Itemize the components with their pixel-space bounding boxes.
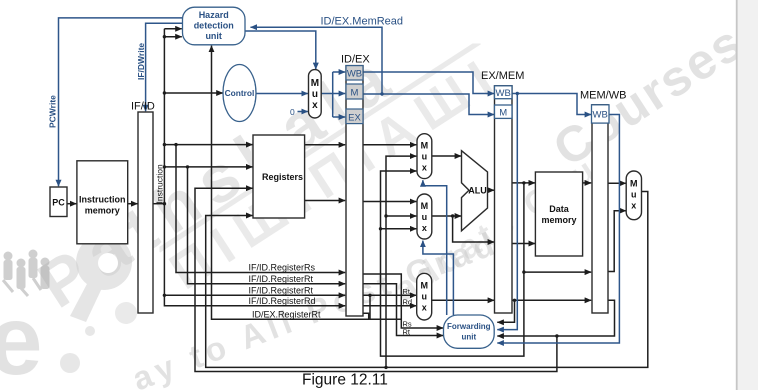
MEM/WB register [592, 105, 608, 313]
svg-text:memory: memory [541, 215, 576, 225]
wire EX/MEM ALU-result to MEM/WB [524, 271, 591, 273]
svg-text:IF/ID: IF/ID [131, 101, 155, 113]
wire EX/MEM WB to MEM/WB WB [512, 94, 591, 115]
svg-text:M: M [421, 201, 429, 211]
svg-text:Instruction: Instruction [155, 164, 165, 203]
mux ALU operand A [417, 134, 432, 179]
svg-text:Figure 12.11: Figure 12.11 [302, 372, 388, 389]
svg-text:u: u [422, 152, 428, 162]
wire Rs line to forwarding unit [363, 274, 443, 328]
svg-text:IF/ID.RegisterRt: IF/ID.RegisterRt [249, 286, 314, 296]
svg-text:WB: WB [496, 88, 511, 99]
wire ID/EX.RegisterRt to hazard unit [212, 46, 369, 320]
ID/EX register [346, 66, 363, 316]
svg-text:WB: WB [593, 110, 608, 121]
svg-text:M: M [351, 88, 359, 99]
svg-text:PC: PC [52, 198, 65, 208]
wire EX/MEM to data memory write data [512, 243, 535, 245]
svg-text:x: x [422, 163, 427, 173]
svg-text:u: u [421, 292, 427, 302]
wire destination mux output to EX/MEM [432, 299, 495, 301]
wire control to mux [256, 93, 308, 95]
wire hazard unit to control mux select [245, 31, 316, 69]
svg-text:Registers: Registers [262, 172, 303, 182]
svg-text:EX/MEM: EX/MEM [481, 70, 524, 82]
svg-text:M: M [420, 281, 428, 291]
wire instruction stub IF/ID to trunk [153, 203, 164, 205]
mux ALU operand B [417, 194, 432, 239]
wire WB-mux forward to mux A input 2 and mux B input 2 [386, 156, 416, 367]
svg-text:ID/EX: ID/EX [341, 54, 370, 66]
wire MEM/WB ALU result to WB mux input 2 [607, 211, 626, 272]
wire control mux output bracket to ID/EX WB M EX [321, 93, 333, 95]
mux write back [626, 171, 641, 220]
wire data memory read data to MEM/WB [583, 182, 592, 184]
svg-text:u: u [422, 212, 428, 222]
wire IF/ID.RegisterRs line [176, 145, 345, 273]
svg-text:e: e [0, 285, 43, 390]
junction dots navy [380, 92, 519, 96]
svg-text:u: u [312, 89, 318, 100]
wire EX/MEM WB branch to forwarding unit [497, 94, 517, 330]
wire ID/EX.MemRead to hazard unit [251, 27, 383, 94]
svg-text:memory: memory [85, 206, 120, 216]
wire EX/MEM.RegisterRd branch to forwarding unit [497, 300, 514, 322]
wire Rt to destination mux input 1 [363, 294, 416, 296]
EX/MEM WB box [495, 86, 513, 99]
svg-text:EX: EX [348, 113, 361, 124]
svg-text:M: M [630, 179, 638, 189]
svg-text:MEM/WB: MEM/WB [580, 90, 626, 102]
mux control (after control unit) [309, 70, 322, 118]
data memory [535, 172, 582, 256]
wire mux B output branch to EX/MEM write data [453, 216, 495, 242]
wire ALU output to EX/MEM [488, 189, 495, 191]
wire EX/MEM to data memory address [512, 182, 535, 184]
ID/EX EX box [346, 109, 363, 124]
svg-text:IF/DWrite: IF/DWrite [136, 43, 146, 80]
svg-text:Data: Data [549, 204, 570, 214]
wire registers read data 1 to ID/EX [305, 144, 346, 146]
svg-text:x: x [631, 201, 636, 211]
svg-text:Rd: Rd [403, 297, 413, 306]
svg-text:u: u [631, 190, 637, 200]
svg-text:Rt: Rt [403, 287, 411, 296]
registers [253, 135, 305, 218]
svg-text:M: M [311, 78, 319, 89]
wire instruction memory to IF/ID [128, 203, 138, 205]
junction dots black [163, 35, 559, 369]
wire ID/EX M to EX/MEM M [363, 94, 494, 115]
svg-text:WB: WB [347, 69, 362, 80]
svg-text:x: x [422, 303, 427, 313]
svg-text:PCWrite: PCWrite [48, 95, 58, 128]
svg-text:detection: detection [194, 21, 234, 31]
ID/EX M box [346, 84, 363, 99]
wire ID/EX to ALU mux A input 1 [363, 144, 416, 146]
wire MEM/WB WB to forwarding unit [497, 115, 619, 344]
wire control feed [164, 92, 222, 94]
wire mux B output to ALU [432, 215, 461, 217]
svg-text:unit: unit [461, 333, 476, 342]
wire write register (MEM/WB.RegisterRd wrap-around) [195, 188, 557, 371]
page edge strip [736, 0, 758, 390]
svg-text:Courses: Courses [543, 14, 753, 178]
ALU [462, 151, 488, 231]
svg-text:x: x [312, 100, 318, 111]
EX/MEM M box [495, 105, 513, 118]
svg-text:x: x [422, 223, 427, 233]
svg-text:Rt: Rt [403, 327, 411, 336]
svg-text:Forwarding: Forwarding [447, 322, 491, 331]
svg-text:unit: unit [205, 31, 222, 41]
forwarding unit [444, 315, 495, 348]
wire EX/MEM ALU-result forward (down, left, up to mux A input 3) [381, 171, 524, 356]
wire Rd to destination mux input 2 [363, 305, 416, 307]
wire write data (WB mux wrap-around) [206, 192, 648, 368]
wire Rs jog to forwarding vertical [370, 295, 401, 319]
control unit [223, 65, 256, 122]
svg-text:Instruction: Instruction [79, 195, 126, 205]
PC [50, 187, 67, 217]
wire ID/EX to ALU mux B input 1 [363, 201, 416, 203]
wire read register 1 [164, 144, 252, 146]
wire IF/ID.RegisterRt line 2 [164, 294, 345, 296]
EX/MEM register [495, 86, 513, 313]
svg-text:IF/ID.RegisterRs: IF/ID.RegisterRs [249, 263, 316, 273]
wire PC to instruction memory [67, 203, 76, 205]
ID/EX WB box [346, 66, 363, 80]
MEM/WB WB box [592, 105, 610, 123]
wire forwarding unit ForwardA to mux A select [423, 180, 447, 315]
svg-text:ID/EX.RegisterRt: ID/EX.RegisterRt [252, 310, 321, 320]
wire MEM/WB read data to WB mux input 1 [607, 182, 626, 184]
svg-text:ALU: ALU [468, 186, 487, 196]
mux destination register [417, 273, 432, 320]
wire Rt line to forwarding unit [363, 284, 443, 336]
instruction memory [77, 161, 128, 244]
wire MEM/WB.RegisterRd to forwarding unit [497, 300, 614, 336]
wire mux A output to ALU [432, 155, 461, 157]
svg-text:M: M [499, 108, 507, 119]
svg-text:Control: Control [225, 88, 255, 98]
wire registers read data 2 to ID/EX [305, 200, 346, 202]
IF/ID register [138, 112, 153, 313]
svg-text:Hazard: Hazard [199, 10, 229, 20]
wire ID/EX WB to EX/MEM WB [363, 72, 494, 94]
wire hazard input 2 [164, 36, 181, 38]
wire zero constant to mux [298, 111, 308, 113]
wire EX/MEM.RegisterRd to MEM/WB [512, 299, 591, 301]
wire branch to mux B input 3 [381, 228, 417, 230]
svg-text:M: M [421, 141, 429, 151]
wire IF/IDWrite (hazard unit to IF/ID) [146, 23, 183, 111]
svg-text:IF/ID.RegisterRd: IF/ID.RegisterRd [249, 296, 316, 306]
wire read register 2 [164, 166, 252, 168]
svg-text:0: 0 [290, 107, 295, 117]
wire instruction trunk (vertical at x=164.4 feeding hazard unit, control, registers, IF/ID.RegisterRd line) [164, 29, 345, 306]
wire hazard input 1 [164, 28, 181, 30]
wire forwarding unit ForwardB to mux B select [423, 241, 454, 315]
svg-text:ID/EX.MemRead: ID/EX.MemRead [321, 16, 404, 28]
svg-text:IF/ID.RegisterRt: IF/ID.RegisterRt [249, 274, 314, 284]
wire IF/ID.RegisterRt line 1 [188, 167, 346, 284]
wire PCWrite (hazard unit to PC) [59, 18, 183, 186]
hazard detection unit [183, 7, 246, 45]
